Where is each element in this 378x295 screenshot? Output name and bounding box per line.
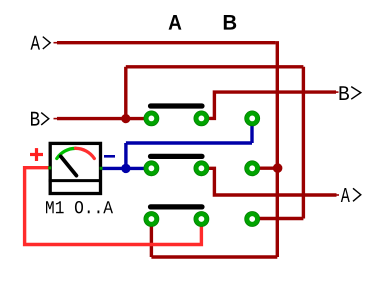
switch S1a pin 1 [144, 111, 159, 126]
node A column header [169, 15, 182, 30]
wire horizontal y=218.5 from bottom pole pin3 to x=304 [252, 217, 303, 220]
switch S1a pin 2 [194, 111, 209, 126]
meter M1 plus terminal mark [30, 148, 43, 161]
wire vertical x=125.8 from junction up to y=66.8 [124, 67, 127, 119]
meter M1 left pin marker [48, 166, 51, 169]
node A> left input label [31, 36, 51, 50]
switch S1c pin 3 [245, 212, 260, 227]
switch S1c pin 1 [144, 212, 159, 227]
node A> right output label [341, 188, 361, 202]
junction dot at (125.8,118.6) [121, 114, 130, 123]
switch S1c pin 2 [194, 212, 209, 227]
meter M1 needle [61, 156, 77, 175]
wire vertical x=277 from A input down to bottom [276, 41, 279, 257]
switch S1 pole c (bottom) contact bar [151, 204, 203, 209]
node B column header [224, 15, 236, 30]
wire from middle pole pin3 to x=277 [252, 166, 277, 169]
junction dot blue at (125.9,168.4) [121, 164, 130, 173]
switch S1b pin 1 [144, 161, 159, 176]
wire blue: meter minus to middle pole pin1 [101, 167, 151, 170]
switch S1b pin 3 [245, 161, 260, 176]
wire from top pole pin2 up and right to B output [201, 92, 336, 118]
wire horizontal y=66.8 to x=304 [126, 65, 304, 68]
meter M1 minus terminal mark [104, 155, 115, 158]
wire input A horizontal y=42.5 [54, 41, 276, 44]
node B> right output label [340, 86, 361, 100]
wire vertical x=151.4 up to switch bottom pole pin 1 [150, 219, 153, 257]
switch S1b pin 2 [194, 161, 209, 176]
meter M1 divider line [49, 179, 102, 182]
meter M1 body [50, 143, 100, 193]
wire vertical x=304 down to y=218.5 [302, 67, 305, 219]
switch S1 pole b (middle) contact bar [151, 154, 203, 159]
wire bottom horizontal y=257 [151, 255, 277, 258]
meter M1 scale arc red half [76, 148, 95, 158]
node B> left input label [31, 112, 49, 126]
wire blue vertical x=125.9 up to y=143 [124, 143, 127, 168]
meter M1 right pin marker [100, 167, 103, 170]
wire blue vertical x=252 up to top pole pin3 [250, 118, 253, 143]
junction dot at (277,168.3) [273, 163, 283, 173]
switch S1a pin 3 [245, 111, 260, 126]
switch S1 pole a (top) contact bar [151, 103, 203, 108]
wire tapered tip B output [336, 91, 339, 93]
wire from middle pole pin2 down and right to A output [201, 168, 336, 195]
meter M1 value label [46, 201, 113, 213]
meter M1 scale arc green half [57, 148, 76, 158]
wire blue horizontal y=143 [126, 141, 252, 144]
wire red: meter plus to bottom pole pin2 [25, 168, 202, 245]
wire tapered tip A output [337, 194, 340, 196]
wire input B horizontal y=118.5 [54, 117, 152, 120]
